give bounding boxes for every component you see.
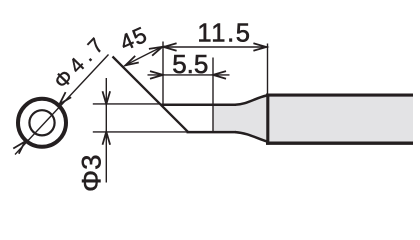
- arrow 11.5 left: [164, 43, 177, 51]
- arrow 5.5 left: [150, 71, 163, 79]
- tip body gray fill: [213, 95, 267, 143]
- dimension line phi3 vertical: [105, 78, 107, 183]
- tip top outline: [161, 103, 237, 106]
- tip top taper curve: [235, 96, 267, 105]
- extension line right (x=267.5): [267, 44, 269, 95]
- barrel bottom edge: [266, 142, 413, 145]
- arrow 5.5 right: [213, 71, 226, 79]
- extension line bottom (phi3): [93, 131, 187, 133]
- arrow leader top-right: [57, 92, 71, 107]
- arrow leader bottom-left: [13, 139, 27, 154]
- svg-text:11.5: 11.5: [197, 19, 251, 47]
- barrel top edge: [266, 94, 413, 97]
- arrow arc top: [149, 43, 164, 55]
- dimension line 11.5: [163, 46, 267, 48]
- arrow phi3 down: [103, 91, 111, 104]
- extension line middle (x=213): [212, 58, 214, 133]
- barrel gray fill: [266, 96, 413, 142]
- angle arc 45: [126, 47, 163, 66]
- tip bottom outline: [187, 131, 237, 134]
- svg-text:Φ3: Φ3: [77, 154, 106, 192]
- front view inner circle: [29, 110, 54, 135]
- extension line left (x=163): [162, 42, 164, 106]
- extension line top (phi3): [93, 103, 161, 105]
- tip bottom taper curve: [235, 132, 267, 141]
- arrow arc bottom: [124, 56, 139, 69]
- barrel left edge: [266, 94, 269, 145]
- arrow 11.5 right: [253, 43, 266, 51]
- chamfer line: [113, 57, 189, 132]
- arrow phi3 up: [103, 132, 111, 145]
- leader line phi4.7: [15, 55, 109, 155]
- dimension line 5.5: [148, 74, 230, 76]
- svg-text:5.5: 5.5: [172, 49, 208, 79]
- front view outer circle: [18, 99, 66, 147]
